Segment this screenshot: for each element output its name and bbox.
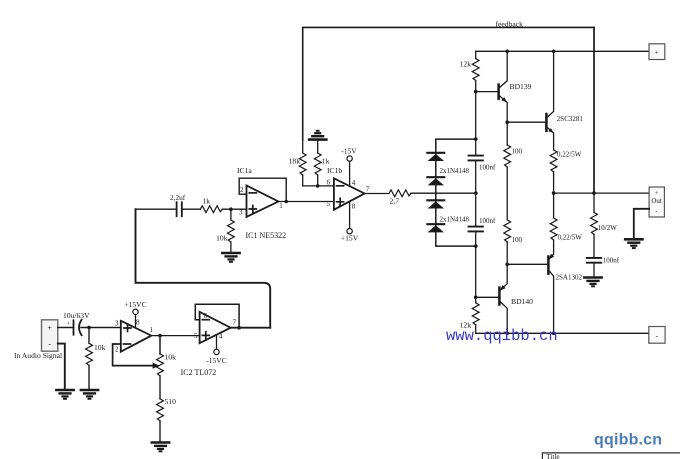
wire output node line bbox=[554, 192, 650, 194]
svg-text:-15VC: -15VC bbox=[206, 356, 227, 365]
node out a bbox=[552, 191, 556, 195]
wire C3 to IC2a pin3 bbox=[81, 327, 121, 329]
ground above R6 bbox=[309, 131, 326, 140]
resistor R4 10k bbox=[216, 209, 234, 252]
svg-text:-15V: -15V bbox=[341, 146, 357, 155]
svg-text:5: 5 bbox=[327, 200, 331, 208]
wire connector plus to C3 bbox=[58, 327, 72, 329]
terminal - supply bbox=[649, 327, 665, 344]
wire IC1b output bbox=[365, 193, 390, 195]
svg-text:1k: 1k bbox=[322, 157, 330, 166]
resistor R1 10k bbox=[86, 328, 106, 390]
wire out minus to ground bbox=[634, 209, 649, 239]
wire feedback drop bbox=[593, 27, 595, 193]
svg-text:7: 7 bbox=[233, 318, 237, 326]
svg-text:BD140: BD140 bbox=[511, 297, 533, 306]
resistor R10 10/2W bbox=[591, 193, 618, 257]
svg-text:+15VC: +15VC bbox=[124, 300, 146, 309]
ground zobel bbox=[584, 278, 601, 287]
node driver bottom bbox=[505, 263, 509, 267]
resistor R14 12k lower bbox=[460, 297, 479, 333]
svg-text:+: + bbox=[67, 321, 71, 327]
svg-text:100nf: 100nf bbox=[479, 217, 496, 225]
svg-text:5: 5 bbox=[194, 332, 198, 340]
node IC1a out bbox=[284, 200, 288, 204]
svg-text:100nf: 100nf bbox=[603, 257, 620, 265]
svg-text:2x1N4148: 2x1N4148 bbox=[440, 167, 470, 175]
svg-text:2,7: 2,7 bbox=[390, 196, 400, 205]
node IC2b out bbox=[237, 326, 241, 330]
svg-text:10k: 10k bbox=[165, 353, 177, 362]
svg-text:0,22/5W: 0,22/5W bbox=[557, 150, 582, 158]
capacitor C5 100nf bbox=[469, 217, 497, 231]
svg-text:3: 3 bbox=[239, 209, 243, 217]
svg-text:feedback: feedback bbox=[496, 20, 524, 29]
node IC2a out bbox=[158, 334, 162, 338]
svg-text:-: - bbox=[48, 340, 51, 349]
svg-text:12k: 12k bbox=[460, 59, 472, 68]
connector J1 In Audio Signal bbox=[42, 320, 58, 351]
svg-text:IC1 NE5322: IC1 NE5322 bbox=[246, 231, 287, 240]
resistor R8 12k bbox=[460, 51, 479, 91]
ground at out bbox=[625, 239, 642, 248]
svg-text:8: 8 bbox=[136, 319, 140, 327]
wire to 2SC3281 base bbox=[507, 121, 545, 123]
svg-text:3: 3 bbox=[115, 320, 119, 328]
capacitor C1 2,2uf bbox=[170, 193, 186, 216]
wire bias column mid bbox=[475, 160, 477, 226]
svg-text:18k: 18k bbox=[289, 157, 301, 166]
ground at connector bbox=[56, 390, 73, 399]
capacitor C3 10u/63V bbox=[63, 311, 90, 335]
svg-text:10k: 10k bbox=[216, 234, 228, 243]
node out b bbox=[592, 191, 596, 195]
terminal Out bbox=[649, 187, 664, 217]
resistor R3 1k bbox=[200, 196, 222, 212]
svg-text:IC1a: IC1a bbox=[237, 166, 252, 175]
svg-text:4: 4 bbox=[219, 332, 223, 340]
svg-text:0,22/5W: 0,22/5W bbox=[558, 234, 583, 242]
svg-text:6: 6 bbox=[204, 312, 208, 320]
power +15VC bbox=[124, 300, 146, 328]
wire IC2b output bbox=[231, 327, 271, 329]
node rail b bbox=[552, 50, 556, 54]
node rail c bbox=[505, 332, 509, 336]
node diode top tap bbox=[474, 137, 478, 141]
capacitor C6 100nf zobel bbox=[587, 257, 620, 277]
wire to C1 bbox=[136, 208, 176, 210]
wire IC1a feedback box bbox=[239, 178, 286, 201]
svg-text:1: 1 bbox=[150, 326, 154, 334]
svg-text:qqibb.cn: qqibb.cn bbox=[594, 431, 662, 448]
wire node to IC1b pin6 bbox=[303, 185, 334, 187]
wire negative rail bbox=[476, 332, 649, 334]
node BD139 base bbox=[474, 90, 478, 94]
node driver top bbox=[505, 120, 509, 124]
svg-text:In Audio Signal: In Audio Signal bbox=[14, 351, 62, 360]
diode D4 1N4148 bbox=[427, 224, 444, 232]
wire bias column bottom bbox=[475, 231, 477, 297]
wire IC2a feedback loop pin2 bbox=[113, 344, 153, 366]
svg-text:IC1b: IC1b bbox=[327, 166, 342, 175]
power +15V bbox=[341, 201, 359, 242]
svg-text:1k: 1k bbox=[203, 196, 211, 205]
resistor R2 510 bbox=[157, 397, 176, 442]
wiper arrow into RV1 bbox=[153, 363, 160, 369]
wire R3 to IC1a pin3 bbox=[222, 208, 246, 210]
svg-text:2: 2 bbox=[115, 346, 119, 354]
resistor R7 2,7 bbox=[389, 190, 411, 205]
op-amp IC1b bbox=[327, 178, 370, 210]
wire diode chain frame bbox=[436, 139, 476, 246]
svg-text:2SA1302: 2SA1302 bbox=[556, 273, 583, 281]
svg-text:Out: Out bbox=[651, 197, 662, 205]
resistor R9 0,22/5W bbox=[550, 150, 581, 193]
diode D3 1N4148 bbox=[427, 200, 444, 208]
wire connector minus to ground bbox=[58, 344, 65, 390]
svg-text:100nf: 100nf bbox=[479, 164, 496, 172]
op-amp IC2b bbox=[194, 312, 237, 343]
wire to 2SA1302 base bbox=[507, 263, 547, 265]
capacitor C4 100nf bbox=[469, 156, 497, 172]
wire riser to coupling cap bbox=[136, 209, 271, 328]
node bias mid bbox=[474, 191, 478, 195]
node rail a bbox=[505, 50, 509, 54]
svg-text:510: 510 bbox=[165, 397, 177, 406]
resistor R12 100 lower bbox=[504, 220, 523, 264]
transistor Q3 2SC3281 bbox=[546, 51, 583, 150]
svg-text:2,2uf: 2,2uf bbox=[170, 193, 186, 202]
svg-text:www.qqibb.cn: www.qqibb.cn bbox=[446, 327, 558, 345]
wire IC2a output bbox=[151, 335, 199, 337]
svg-text:100: 100 bbox=[512, 236, 523, 244]
wire positive rail bbox=[476, 50, 649, 52]
svg-text:Title: Title bbox=[546, 453, 559, 459]
transistor Q4 2SA1302 bbox=[548, 240, 582, 333]
svg-text:IC2 TL072: IC2 TL072 bbox=[181, 368, 217, 377]
svg-text:4: 4 bbox=[352, 179, 356, 187]
transistor Q1 BD139 bbox=[476, 51, 532, 122]
svg-text:+: + bbox=[47, 323, 52, 332]
op-amp IC1a bbox=[240, 186, 283, 217]
transistor Q2 BD140 bbox=[476, 263, 533, 333]
node BD140 base bbox=[474, 296, 478, 300]
svg-text:2x1N4148: 2x1N4148 bbox=[440, 216, 470, 224]
resistor R5 18k bbox=[289, 140, 306, 186]
diode D1 1N4148 bbox=[427, 153, 444, 161]
svg-text:8: 8 bbox=[352, 203, 356, 211]
resistor R11 100 upper bbox=[504, 122, 523, 220]
svg-text:BD139: BD139 bbox=[510, 82, 532, 91]
ground below R1 bbox=[81, 390, 98, 399]
potentiometer RV1 10k bbox=[157, 336, 176, 399]
wire R7 to bias network bbox=[411, 192, 476, 194]
svg-text:10/2W: 10/2W bbox=[598, 224, 617, 232]
svg-text:2SC3281: 2SC3281 bbox=[557, 115, 584, 123]
wire IC1a output to IC1b pin5 bbox=[278, 201, 334, 203]
power -15V bbox=[341, 146, 357, 186]
wire C1 to R3 bbox=[182, 208, 201, 210]
diode D2 1N4148 bbox=[427, 177, 444, 185]
resistor R13 0,22/5W lower bbox=[550, 193, 582, 241]
svg-text:10k: 10k bbox=[94, 343, 106, 352]
ground below R4 bbox=[222, 253, 239, 262]
svg-text:1: 1 bbox=[279, 202, 283, 210]
svg-text:100: 100 bbox=[512, 147, 523, 155]
resistor R6 1k bbox=[314, 140, 329, 186]
node rail d bbox=[552, 332, 556, 336]
svg-text:10u/63V: 10u/63V bbox=[63, 311, 90, 320]
svg-text:7: 7 bbox=[366, 186, 370, 194]
svg-text:6: 6 bbox=[327, 178, 331, 186]
node diode bottom tap bbox=[474, 244, 478, 248]
wire bias column top bbox=[475, 92, 477, 156]
node IC1a pin3 bbox=[229, 207, 233, 211]
wire IC2b feedback box bbox=[195, 304, 239, 327]
svg-text:-: - bbox=[655, 207, 657, 214]
svg-text:2: 2 bbox=[240, 186, 244, 194]
title block bbox=[542, 453, 680, 459]
node input bbox=[87, 326, 91, 330]
svg-text:+15V: +15V bbox=[341, 234, 359, 243]
ground below R2 bbox=[152, 443, 169, 452]
terminal + supply bbox=[649, 44, 665, 60]
wire feedback top bbox=[303, 27, 594, 140]
op-amp IC2a bbox=[115, 319, 154, 354]
power -15VC bbox=[206, 335, 227, 365]
svg-text:+: + bbox=[655, 190, 659, 197]
node pin6 bbox=[316, 184, 320, 188]
svg-text:+: + bbox=[655, 48, 659, 56]
